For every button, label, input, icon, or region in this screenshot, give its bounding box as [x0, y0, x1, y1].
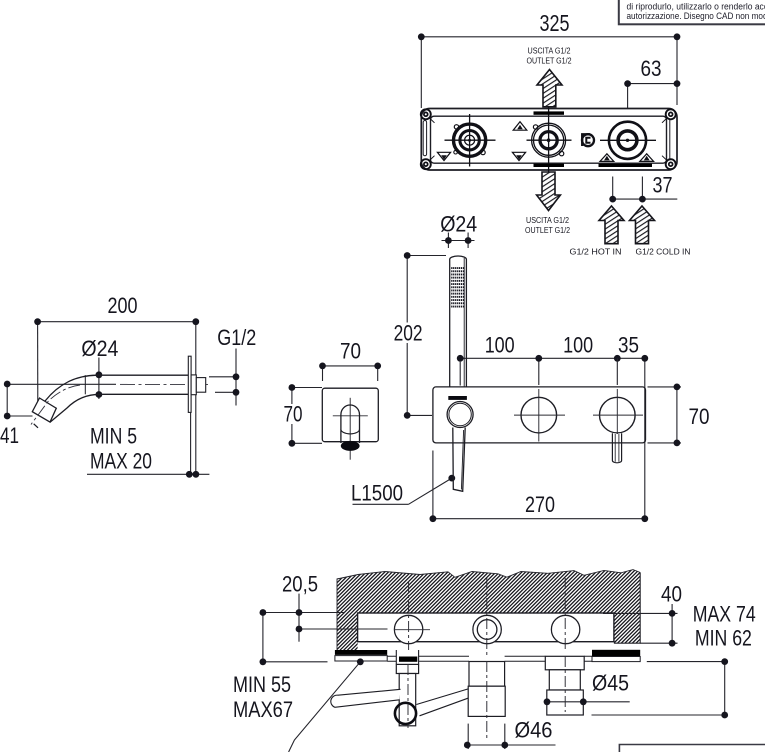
port2 section circle — [473, 615, 501, 643]
sq dim text 70 left — [283, 402, 303, 427]
dim 70 right ext B — [648, 442, 682, 444]
dot L1500 — [448, 475, 455, 482]
port1 stem through plate — [396, 650, 418, 664]
sq dim ext TR — [377, 366, 379, 381]
knob1 holder ring outer — [447, 402, 473, 428]
port3 hot/cold valve — [600, 122, 656, 159]
port1 collar — [396, 664, 418, 673]
dim 20,5 tick line — [298, 594, 300, 642]
dim 20,5 ref top — [263, 612, 345, 614]
dim Ø46 ext L — [467, 724, 469, 749]
plate section right black bar — [592, 650, 640, 656]
knob2 crosshair — [514, 389, 565, 442]
svg-text:di riprodurlo, utilizzarlo o r: di riprodurlo, utilizzarlo o renderlo ac… — [627, 1, 765, 11]
dim MAX74/MIN62 bottom ref — [592, 714, 726, 716]
dim 41 top reference — [7, 383, 116, 385]
dot 100 b — [535, 355, 542, 362]
svg-text:MAX 20: MAX 20 — [90, 449, 152, 474]
title block box top right — [619, 0, 765, 24]
port3 collar — [545, 656, 584, 670]
lever knob ring — [395, 703, 416, 724]
svg-text:200: 200 — [108, 293, 138, 318]
dim 37 riser cold — [641, 177, 643, 200]
spout tube body — [32, 375, 188, 428]
right end rib — [669, 119, 671, 161]
corner screw TR — [662, 109, 676, 123]
svg-text:autorizzazione. Disegno CAD no: autorizzazione. Disegno CAD non mod — [627, 11, 765, 21]
corner screw TL — [421, 109, 435, 123]
port2 centerline lower — [486, 661, 488, 741]
dim 63 left extension / port3 centerline — [627, 84, 629, 166]
dim MAX74/MIN62 vertical — [724, 662, 726, 715]
svg-text:G1/2 HOT IN: G1/2 HOT IN — [570, 247, 622, 257]
dot Ø24 L — [445, 237, 452, 244]
svg-text:MIN 55: MIN 55 — [233, 672, 291, 697]
port1 centerline dash — [408, 581, 410, 650]
dim dot 41 bottom — [4, 413, 11, 420]
riser knob3 — [616, 358, 618, 385]
dim 200 left extension — [37, 322, 39, 408]
marker triangle up cold — [640, 154, 654, 162]
dot 20,5 t2 — [296, 626, 303, 633]
dim Ø24 wand line — [442, 240, 475, 242]
outlet arrow down hatched — [537, 172, 561, 211]
knob3 lever bar — [612, 433, 621, 463]
svg-text:Ø24: Ø24 — [81, 336, 118, 361]
marker triangle down near port1 — [437, 152, 450, 160]
dim Ø24 spout riser — [98, 358, 100, 400]
sq handle sleeve curve — [341, 429, 360, 434]
dim dot 325 L — [418, 33, 425, 40]
sq dim ext TL — [322, 366, 324, 381]
svg-text:OUTLET G1/2: OUTLET G1/2 — [527, 56, 572, 66]
port1 cartridge — [445, 114, 496, 167]
dim 325 line — [421, 36, 677, 38]
dot max74 T — [721, 658, 728, 665]
dot 70r B — [674, 440, 681, 447]
svg-text:Ø46: Ø46 — [515, 718, 553, 743]
port1 stem — [399, 674, 416, 726]
svg-text:40: 40 — [661, 582, 682, 607]
sq dim 70 left line — [291, 388, 293, 444]
G1/2 leader vertical — [235, 349, 237, 406]
svg-text:MIN 5: MIN 5 — [90, 424, 137, 449]
dot 40 T — [669, 610, 676, 617]
edge tick top port2 — [534, 111, 565, 114]
svg-text:MIN 62: MIN 62 — [695, 626, 752, 651]
dot 40 B — [669, 640, 676, 647]
sq handle crosshair vertical — [349, 398, 351, 460]
sq dot L B — [289, 440, 296, 447]
dim 40 ref top — [603, 612, 678, 614]
port2 cylinder upper — [469, 662, 505, 687]
brand logo mark — [582, 134, 594, 146]
dim 325 left extension — [420, 37, 422, 108]
port2 centerline dash — [486, 578, 488, 655]
dim Ø24 wand riser R — [467, 233, 469, 249]
port3 centerline dash — [564, 578, 566, 650]
port3 body mid — [549, 670, 580, 690]
dim 70 right ext T — [648, 386, 682, 388]
dot leader plate — [357, 658, 364, 665]
sq handle knob ellipse — [341, 441, 360, 451]
svg-text:325: 325 — [540, 10, 570, 36]
dot 20,5 left — [260, 609, 267, 616]
svg-text:63: 63 — [641, 56, 662, 81]
sq handle crosshair horizontal — [333, 415, 368, 417]
wall left boundary — [337, 579, 358, 651]
MIN/MAX baseline — [87, 473, 209, 475]
sq dim ext LB — [292, 442, 322, 444]
spout centerline bend — [31, 385, 80, 425]
dim 20,5 ref bottom / body centerline — [301, 628, 388, 630]
bottom right box corner — [619, 745, 765, 752]
svg-text:G1/2 COLD IN: G1/2 COLD IN — [636, 247, 691, 257]
dot Ø46 L — [464, 742, 471, 749]
sq dot L T — [289, 384, 296, 391]
dim 40 vertical — [671, 604, 673, 643]
dim 270 left extension — [432, 451, 434, 519]
wall hatch — [337, 570, 640, 651]
dim dot Ø24 top — [96, 371, 103, 378]
svg-text:MAX 74: MAX 74 — [693, 602, 756, 627]
svg-text:100: 100 — [563, 333, 593, 358]
sq dot T L — [319, 363, 326, 370]
dim MIN55/MAX67 vertical — [262, 613, 264, 662]
wand holder clamp — [448, 396, 467, 400]
dim 63 line — [628, 83, 677, 85]
dim MIN55/MAX67 bottom ref — [263, 661, 328, 663]
dim 37 line — [613, 198, 678, 200]
valve body outer shell — [421, 109, 677, 171]
G1/2 leader bottom line — [215, 391, 236, 393]
dot min — [186, 471, 193, 478]
dot 202 B — [404, 412, 411, 419]
dim dot 325 R — [674, 33, 681, 40]
dim dot Ø24 bottom — [96, 391, 103, 398]
dim 41 line — [6, 384, 8, 416]
port1 section circle — [394, 615, 422, 643]
dot 20,5 t1 — [296, 609, 303, 616]
marker triangle up center — [513, 122, 527, 131]
left end slot — [423, 121, 426, 156]
dim 325/63 right extension — [676, 37, 678, 105]
dim 202 vertical line — [406, 256, 408, 416]
svg-text:Ø24: Ø24 — [440, 212, 477, 237]
svg-text:35: 35 — [618, 333, 639, 358]
outlet arrow up hatched — [537, 70, 562, 107]
svg-text:37: 37 — [653, 173, 673, 198]
svg-text:70: 70 — [284, 402, 303, 427]
svg-text:202: 202 — [394, 321, 423, 346]
knob2 diverter circle — [521, 397, 557, 433]
plate section mid lines — [387, 656, 592, 661]
marker triangle up hot — [600, 154, 614, 162]
dot Ø45 L — [544, 698, 551, 705]
dot 270 L — [430, 515, 437, 522]
dot 35 — [641, 355, 648, 362]
svg-text:USCITA G1/2: USCITA G1/2 — [526, 215, 569, 225]
port3 section circle — [551, 615, 579, 643]
cold inlet arrow hatched — [630, 206, 655, 244]
port1 stem centerline dash — [407, 664, 409, 728]
sq dot T R — [374, 363, 381, 370]
wand spray face dots — [451, 267, 464, 307]
dot Ø24 R — [465, 237, 472, 244]
svg-text:20,5: 20,5 — [282, 572, 318, 597]
svg-text:Ø45: Ø45 — [592, 671, 629, 696]
leader line to plate — [289, 662, 361, 752]
riser knob2 — [538, 358, 540, 385]
svg-text:70: 70 — [689, 404, 710, 429]
L1500 leader — [353, 478, 452, 504]
dot 70r T — [674, 384, 681, 391]
port1 seal black band — [399, 657, 417, 662]
spout centerline — [120, 383, 208, 385]
handshower wand body — [450, 256, 467, 387]
sq dim 70 top line — [323, 365, 378, 367]
flange back line — [190, 413, 192, 475]
svg-text:G1/2: G1/2 — [217, 325, 256, 350]
dim 200 line — [38, 321, 196, 323]
hot inlet arrow hatched — [599, 206, 624, 244]
port2 outlet — [527, 107, 572, 173]
dim dot 37 R — [639, 196, 646, 203]
dim Ø24 wand riser L — [447, 233, 449, 249]
wand handle below — [453, 428, 465, 492]
svg-text:70: 70 — [340, 339, 361, 364]
dim dot 63 R — [674, 80, 681, 87]
knob1 holder ring inner — [449, 403, 471, 425]
dim Ø45 line — [547, 701, 630, 703]
dim 41 bottom reference — [7, 415, 32, 417]
corner screw BL — [421, 156, 435, 170]
svg-text:OUTLET G1/2: OUTLET G1/2 — [525, 225, 570, 235]
dot min55 — [260, 658, 267, 665]
dim 100-100-35 line — [460, 357, 648, 359]
port2 cylinder lower — [468, 686, 505, 716]
valve body inner shell — [431, 116, 667, 163]
lever blade right — [416, 689, 469, 716]
wall break edge (jagged) — [337, 570, 640, 579]
dim 70 right line — [676, 387, 678, 443]
dim MAX74/MIN62 top ref — [647, 661, 725, 663]
nipple thread G1/2 — [196, 378, 205, 393]
dim Ø46 ext R — [504, 724, 506, 749]
dim dot 200 R — [192, 318, 199, 325]
svg-text:41: 41 — [0, 423, 19, 448]
sq dim ext LT — [292, 387, 322, 389]
dot Ø46 R — [501, 742, 508, 749]
nipple collar — [191, 375, 196, 395]
dot 270 R — [641, 515, 648, 522]
svg-text:MAX67: MAX67 — [233, 697, 293, 722]
knob3 crosshair — [593, 389, 643, 434]
knob3 valve circle — [600, 397, 636, 433]
valve body section — [358, 613, 614, 642]
dim dot 41 top — [4, 381, 11, 388]
port3 stem centerline dash — [564, 656, 566, 712]
wall flange — [188, 356, 191, 412]
corner screw BR — [662, 156, 676, 170]
dot 202 T — [404, 252, 411, 259]
dot 100 c — [614, 355, 621, 362]
sq handle body — [341, 405, 360, 443]
dim 40 ref bottom — [640, 642, 677, 644]
square escutcheon — [322, 388, 378, 442]
dim dot G1/2 bottom — [233, 389, 240, 396]
plate section right lip — [592, 657, 640, 662]
edge tick bottom port3 — [599, 164, 653, 167]
marker triangle down center — [512, 152, 525, 160]
svg-text:L1500: L1500 — [351, 481, 403, 506]
dot max74 B — [721, 712, 728, 719]
wall face right — [614, 573, 640, 644]
svg-text:100: 100 — [485, 333, 515, 358]
port3 body lower — [547, 690, 584, 715]
dot max — [193, 471, 200, 478]
dim dot 200 L — [34, 318, 41, 325]
svg-text:270: 270 — [525, 492, 555, 517]
trim plate — [433, 387, 646, 443]
dim 270 line — [433, 518, 645, 520]
dim 37 riser hot — [612, 177, 614, 200]
dot Ø45 R — [580, 698, 587, 705]
dim dot 37 L — [609, 196, 616, 203]
dim 200 right extension — [195, 322, 197, 475]
dim Ø46 line — [467, 744, 555, 746]
riser 35 right / 270 right extension — [644, 358, 646, 518]
edge tick bottom port2 — [534, 164, 565, 167]
port1 crosshair — [394, 629, 430, 631]
dim dot G1/2 top — [233, 373, 240, 380]
dim text 202 — [392, 321, 423, 346]
dim dot 63 L — [624, 80, 631, 87]
riser knob1 below dot — [459, 362, 461, 386]
dot 100 a — [457, 355, 464, 362]
dim 202 bottom connector — [407, 414, 432, 416]
G1/2 leader top line — [209, 376, 236, 378]
lever blade left — [331, 689, 401, 707]
svg-text:USCITA G1/2: USCITA G1/2 — [528, 46, 571, 56]
plate section left black bar — [335, 650, 387, 655]
dim 202 top connector — [407, 255, 446, 257]
plate section left lip — [335, 656, 387, 661]
